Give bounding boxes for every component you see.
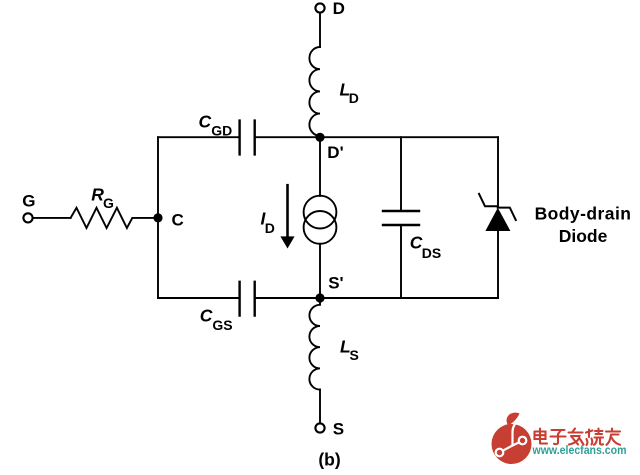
svg-text:(b): (b) [318,449,340,469]
svg-text:C: C [200,305,213,325]
svg-text:www.elecfans.com: www.elecfans.com [532,443,627,457]
svg-text:S': S' [328,274,343,293]
svg-text:S: S [350,347,359,363]
svg-text:G: G [22,192,35,211]
svg-text:Body-drain: Body-drain [535,203,632,223]
svg-text:Diode: Diode [559,226,608,246]
svg-text:C: C [172,210,184,229]
svg-text:GD: GD [211,122,232,138]
svg-text:D: D [333,0,345,18]
svg-text:S: S [333,419,344,438]
svg-text:GS: GS [212,317,232,333]
svg-text:C: C [199,112,212,132]
svg-text:D': D' [327,143,343,162]
svg-text:D: D [349,90,359,106]
svg-text:G: G [103,195,114,211]
svg-text:D: D [265,220,275,236]
svg-text:DS: DS [422,245,441,261]
